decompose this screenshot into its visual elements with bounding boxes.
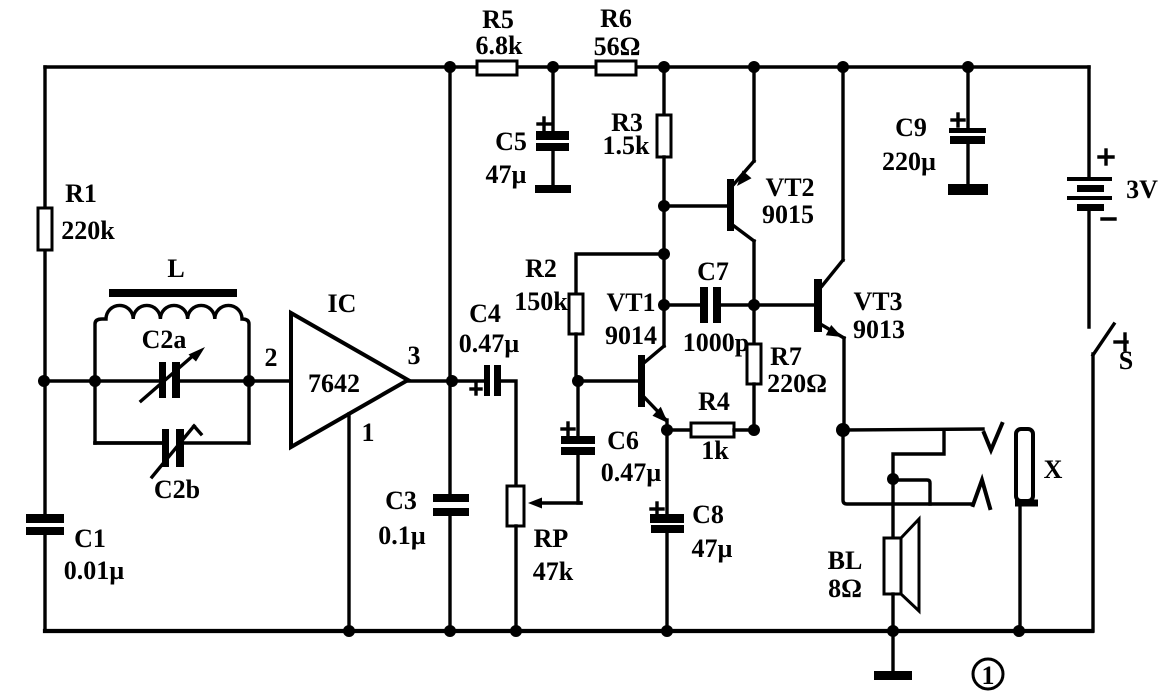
wire tank bottom left (95, 441, 165, 444)
svg-text:RP: RP (534, 524, 569, 553)
transistor Q1 VT1 9014 (638, 355, 645, 407)
svg-text:R1: R1 (65, 179, 97, 208)
transistor Q3 VT3 9013 (814, 279, 822, 332)
svg-text:47µ: 47µ (692, 534, 733, 563)
wire C2b left (95, 441, 165, 444)
node C7 right (748, 299, 760, 311)
wire supply bus upper (448, 67, 451, 498)
node bus-rail (444, 625, 456, 637)
capacitor C4 (484, 365, 490, 396)
svg-text:220µ: 220µ (882, 147, 936, 176)
capacitor C7 (664, 303, 702, 306)
wire node to tank (44, 379, 95, 382)
svg-text:X: X (1044, 455, 1063, 484)
svg-text:3V: 3V (1126, 175, 1158, 204)
wire VT1 base (578, 379, 638, 382)
svg-text:0.1µ: 0.1µ (378, 521, 426, 550)
node antenna input (38, 375, 50, 387)
node rail-VT2 (748, 61, 760, 73)
svg-text:C1: C1 (74, 524, 106, 553)
svg-text:2: 2 (265, 343, 278, 372)
resistor R5 (477, 61, 517, 75)
ground (891, 631, 894, 672)
wire right edge lower (1091, 354, 1094, 631)
capacitor C2a (159, 362, 166, 398)
wire pin2 input (249, 379, 291, 382)
svg-text:8Ω: 8Ω (828, 574, 862, 603)
resistor R3 (657, 115, 671, 157)
svg-text:C7: C7 (697, 257, 729, 286)
svg-text:220Ω: 220Ω (767, 369, 827, 398)
node VT1 emitter (661, 424, 673, 436)
jack upper contact V (984, 424, 1002, 450)
resistor R1 (38, 208, 52, 250)
wire speaker feed (891, 479, 894, 538)
wire VT3 base (754, 303, 814, 306)
svg-text:1: 1 (362, 418, 375, 447)
svg-text:IC: IC (328, 289, 357, 318)
wire C2a left (95, 379, 163, 382)
capacitor C8 (665, 430, 668, 518)
svg-text:C5: C5 (495, 127, 527, 156)
node rail-C5 (547, 61, 559, 73)
wire C2b right (180, 441, 249, 444)
wire left edge lower (43, 534, 46, 631)
svg-text:R4: R4 (698, 387, 730, 416)
node rail-R3 (658, 61, 670, 73)
svg-text:1: 1 (982, 661, 995, 690)
transistor Q2 VT2 9015 (727, 179, 734, 231)
svg-text:R7: R7 (770, 342, 802, 371)
svg-text:VT2: VT2 (765, 173, 814, 202)
wire IC pin1 to ground (347, 414, 350, 631)
svg-text:R6: R6 (600, 4, 632, 33)
wire IC output (406, 379, 487, 382)
battery 3V (1087, 67, 1090, 178)
capacitor C3 (433, 494, 469, 502)
svg-text:47µ: 47µ (486, 160, 527, 189)
wire bottom ground rail (45, 629, 1092, 633)
svg-text:1k: 1k (701, 436, 729, 465)
node pin1-rail (343, 625, 355, 637)
wire C2a right (176, 379, 249, 382)
wire emitter to jack tip contact (844, 429, 983, 430)
svg-text:9015: 9015 (762, 200, 814, 229)
speaker BL (884, 538, 901, 594)
resistor R7 (752, 305, 755, 345)
node R2 tap (658, 248, 670, 260)
wire emitter down to lower contact (843, 431, 973, 504)
wire left edge upper (43, 67, 46, 515)
wire jack S-link (893, 430, 944, 479)
svg-text:9014: 9014 (605, 321, 657, 350)
svg-text:220k: 220k (61, 216, 115, 245)
resistor R2 (576, 254, 664, 294)
svg-text:3: 3 (408, 341, 421, 370)
wire top supply rail (45, 65, 1089, 68)
node rail-C9 (962, 61, 974, 73)
switch S (1093, 324, 1114, 355)
circled figure number 1 (973, 659, 1003, 689)
svg-text:C9: C9 (895, 113, 927, 142)
node C8-rail (661, 625, 673, 637)
wire RP to ground (514, 526, 517, 631)
svg-text:VT3: VT3 (853, 287, 902, 316)
svg-text:C4: C4 (469, 299, 501, 328)
svg-text:0.01µ: 0.01µ (64, 556, 125, 585)
jack lower contact (973, 480, 990, 508)
capacitor C9 (966, 67, 969, 131)
wire C4 to RP (497, 381, 516, 486)
node R4-R7 (748, 424, 760, 436)
svg-text:C8: C8 (692, 500, 724, 529)
svg-text:1.5k: 1.5k (603, 131, 651, 160)
wire VT2 base (664, 204, 727, 207)
node IC output (446, 375, 458, 387)
node tank right (243, 375, 255, 387)
svg-text:C2a: C2a (142, 325, 187, 354)
svg-text:R5: R5 (482, 5, 514, 34)
svg-text:R2: R2 (525, 254, 557, 283)
resistor R6 (596, 61, 636, 75)
node C7 left / VT1 collector (658, 299, 670, 311)
op-amp IC 7642 (291, 313, 408, 447)
inductor L (109, 289, 237, 297)
svg-text:0.47µ: 0.47µ (459, 329, 520, 358)
wire node to lower contact line (893, 480, 930, 504)
node VT2 base tap (658, 200, 670, 212)
svg-text:C6: C6 (607, 426, 639, 455)
svg-text:6.8k: 6.8k (476, 31, 524, 60)
svg-text:C2b: C2b (154, 475, 200, 504)
node RP-rail (510, 625, 522, 637)
resistor R4 (667, 428, 691, 431)
node jack-ground rail (1013, 625, 1025, 637)
svg-text:0.47µ: 0.47µ (601, 458, 662, 487)
capacitor C2b (162, 429, 169, 467)
wire R3 bus upper (662, 67, 665, 115)
svg-text:47k: 47k (533, 557, 574, 586)
node speaker-ground rail (887, 625, 899, 637)
node rail-VT3 (837, 61, 849, 73)
node tank left (89, 375, 101, 387)
node rail-R5 (444, 61, 456, 73)
svg-text:9013: 9013 (853, 315, 905, 344)
svg-text:S: S (1119, 346, 1133, 375)
node VT3 emitter (836, 423, 850, 437)
svg-text:150k: 150k (514, 287, 568, 316)
node VT1 base (572, 375, 584, 387)
wire R3 bus lower (662, 157, 665, 346)
svg-text:7642: 7642 (308, 369, 360, 398)
svg-text:VT1: VT1 (606, 288, 655, 317)
capacitor C5 (551, 67, 554, 135)
svg-text:C3: C3 (385, 486, 417, 515)
svg-text:56Ω: 56Ω (594, 32, 641, 61)
svg-text:BL: BL (828, 546, 863, 575)
earphone jack X (1016, 429, 1033, 501)
node speaker top (887, 473, 899, 485)
svg-text:1000p: 1000p (683, 328, 749, 357)
capacitor C6 (576, 381, 579, 440)
svg-text:L: L (167, 254, 184, 283)
potentiometer RP (507, 486, 524, 526)
capacitor C1 (26, 514, 64, 523)
wire supply bus lower (448, 512, 451, 631)
